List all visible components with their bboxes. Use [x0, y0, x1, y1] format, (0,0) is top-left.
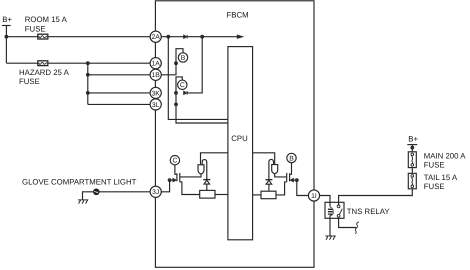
fuse TAIL 15 A: [408, 173, 416, 189]
wire riser2 3K to CPU: [176, 93, 228, 123]
svg-text:B+: B+: [2, 15, 12, 24]
wire B+ to HAZARD fuse: [6, 62, 37, 64]
node B+ junction dot (left): [5, 35, 9, 39]
svg-text:B: B: [289, 155, 294, 162]
relay TNS RELAY box: [325, 202, 344, 218]
wire B+ vertical (right): [411, 145, 413, 152]
wire resistor right to CPU: [253, 194, 261, 196]
fuse HAZARD 25 A: [38, 61, 48, 66]
wire right driver top rail: [253, 153, 275, 165]
svg-text:GLOVE COMPARTMENT LIGHT: GLOVE COMPARTMENT LIGHT: [22, 178, 137, 187]
label circle C top: [178, 80, 187, 89]
wire 1I to relay coil: [314, 196, 330, 207]
ground (TNS relay): [325, 236, 335, 240]
wire 3J to Q1 source: [156, 180, 170, 192]
wire Q2 to resistor right lead: [276, 182, 287, 195]
transistor Q1 drain wire to bullet: [180, 174, 201, 177]
node hazard branch dot: [86, 61, 90, 65]
fuse MAIN 200 A: [408, 152, 416, 168]
wire Q2 source to 1I: [297, 180, 314, 195]
wire B+ vertical drop (left): [5, 26, 7, 64]
filament hook right: [269, 159, 274, 179]
wire relay switch out: [339, 217, 357, 227]
wire B+ feed bar (right): [407, 144, 417, 146]
CPU box: [228, 47, 253, 240]
svg-text:FBCM: FBCM: [227, 10, 249, 19]
connector 1I: [308, 190, 319, 201]
node 3K dot: [174, 91, 178, 95]
resistor right: [261, 191, 276, 199]
svg-text:FUSE: FUSE: [19, 77, 40, 86]
svg-text:1I: 1I: [311, 193, 317, 200]
connector 3K: [150, 87, 161, 98]
transistor Q2 drain wire to bullet: [275, 174, 287, 177]
wire branch to 1B: [88, 74, 156, 76]
node dot after 2A: [166, 35, 170, 39]
connector 1A: [150, 58, 161, 69]
connector 1B: [150, 69, 161, 80]
svg-text:CPU: CPU: [231, 134, 248, 143]
transistor Q1 channel bar: [179, 173, 181, 182]
svg-text:C: C: [172, 158, 177, 165]
wire B+ to ROOM fuse: [6, 36, 37, 38]
svg-text:FUSE: FUSE: [424, 161, 445, 170]
svg-text:1B: 1B: [152, 72, 161, 79]
svg-text:FUSE: FUSE: [25, 24, 46, 33]
svg-text:C: C: [180, 82, 185, 89]
svg-text:TNS RELAY: TNS RELAY: [347, 207, 391, 216]
squiggle wire-continues: [355, 222, 359, 234]
transistor Q2 channel bar: [286, 173, 288, 182]
label circle B gate: [287, 153, 296, 162]
wire riser2 nets: [156, 63, 176, 75]
svg-text:HAZARD 25 A: HAZARD 25 A: [19, 68, 70, 77]
node B+ dot (right): [410, 146, 414, 150]
wire riser1 2A to CPU: [168, 37, 228, 120]
svg-text:1A: 1A: [152, 61, 161, 68]
transistor Q1 gate bar: [176, 173, 178, 181]
wire HAZARD fuse to 1A: [48, 62, 156, 64]
wire 2A row inside FBCM: [156, 36, 238, 38]
wire B+ feed bar (left): [2, 25, 11, 27]
diode D1 on 2A row: [184, 35, 187, 39]
svg-text:TAIL 15 A: TAIL 15 A: [424, 173, 458, 182]
label flag B top: [176, 49, 183, 64]
node 3L dot: [174, 103, 178, 107]
wire hazard branch riser: [87, 63, 89, 104]
wire relay coil to ground: [329, 215, 331, 236]
node Q2 source dot: [295, 178, 299, 182]
transistor Q2 gate bar: [289, 173, 291, 181]
connector 3L: [150, 99, 161, 110]
diode D2 on 3K row: [184, 91, 187, 95]
svg-text:ROOM 15 A: ROOM 15 A: [25, 15, 68, 24]
wire 3K diode up to 2A row: [187, 37, 202, 93]
node Q1 source dot: [168, 178, 172, 182]
svg-text:3J: 3J: [152, 189, 159, 196]
svg-text:3L: 3L: [152, 102, 160, 109]
wire TAIL fuse to relay switch: [339, 189, 413, 205]
zener diode left: [203, 179, 210, 181]
lamp driver element right (bullet): [272, 165, 278, 174]
wire branch to 3K: [88, 92, 156, 94]
filament hook left: [202, 160, 207, 180]
fuse ROOM 15 A: [38, 34, 48, 39]
zener diode right: [265, 179, 272, 181]
connector 2A: [150, 31, 161, 42]
wire left driver top rail: [201, 153, 228, 165]
lamp GLOVE COMPARTMENT LIGHT: [100, 191, 156, 193]
node 1B branch dot: [86, 73, 90, 77]
svg-text:2A: 2A: [152, 34, 161, 41]
wire resistor left to CPU: [215, 194, 228, 196]
relay coil: [328, 209, 332, 214]
node 1A dot: [174, 61, 178, 65]
transistor Q2 gate lead: [290, 163, 292, 175]
wire branch to 3L: [88, 103, 156, 105]
wire Q1 to resistor left lead: [180, 182, 200, 195]
label flag C top: [176, 77, 182, 93]
svg-text:FUSE: FUSE: [424, 182, 445, 191]
node dot before arrow: [200, 35, 204, 39]
lamp driver element left (bullet): [198, 165, 204, 174]
svg-text:B: B: [181, 55, 186, 62]
ground (glove light): [78, 200, 88, 204]
connector 3J: [150, 186, 161, 197]
svg-text:3K: 3K: [152, 90, 161, 97]
svg-text:B+: B+: [408, 135, 418, 144]
resistor left: [200, 190, 215, 198]
transistor Q1 gate lead: [175, 165, 177, 174]
node 3K branch dot: [86, 91, 90, 95]
transistor Q2 source arrow: [294, 179, 297, 181]
relay switch contacts: [337, 205, 340, 208]
transistor Q1 source arrow: [170, 179, 173, 181]
label circle C gate: [170, 156, 179, 165]
FBCM module box: [155, 1, 314, 268]
arrow into CPU logic: [237, 35, 243, 38]
wire between fuses: [411, 168, 413, 174]
label circle B top: [178, 53, 187, 62]
svg-text:MAIN 200 A: MAIN 200 A: [424, 152, 466, 161]
wire ROOM fuse to 2A: [48, 36, 156, 38]
